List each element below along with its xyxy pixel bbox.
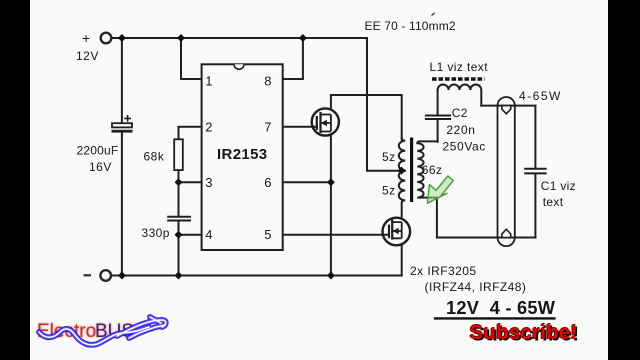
terminal + (12V positive) — [101, 33, 112, 44]
svg-text:(IRFZ44, IRFZ48): (IRFZ44, IRFZ48) — [425, 280, 527, 294]
svg-text:2200uF: 2200uF — [77, 144, 119, 158]
wire lamp bottom return — [437, 237, 536, 239]
wire C2 bottom lead — [437, 120, 439, 142]
svg-text:12V 4 - 65W: 12V 4 - 65W — [446, 298, 556, 318]
label - — [84, 274, 91, 276]
wire ground bottom rail — [111, 275, 401, 277]
wire top 12V rail to transformer center tap — [111, 38, 399, 171]
svg-text:12V: 12V — [76, 49, 99, 63]
wire L1 to lamp top — [481, 105, 515, 107]
transistor Q1 MOSFET — [312, 108, 339, 135]
svg-text:16V: 16V — [89, 160, 112, 174]
transformer T1 core — [410, 138, 413, 203]
node 330p-pin4 junction — [175, 231, 183, 239]
transformer T1 secondary winding 66z — [417, 141, 437, 237]
node ground-Q1source junction — [327, 272, 335, 280]
svg-text:7: 7 — [264, 119, 271, 134]
node 68k-330p-pin3 junction — [175, 178, 183, 186]
svg-text:EE 70 - 110mm2: EE 70 - 110mm2 — [365, 19, 456, 33]
svg-text:text: text — [543, 195, 564, 209]
svg-text:Subscribe!: Subscribe! — [470, 321, 578, 344]
svg-text:C1 viz: C1 viz — [541, 179, 576, 193]
transformer T1 primary winding 5z upper — [399, 138, 405, 171]
capacitor C 330p — [167, 217, 191, 221]
cursor green arrow — [427, 176, 453, 203]
wire C1 top lead — [534, 106, 536, 168]
node junction dots — [118, 34, 406, 280]
lamp top electrode — [502, 106, 511, 114]
logo ElectroBUS — [37, 317, 166, 345]
node pin6-VS junction — [327, 178, 335, 186]
svg-text:C2: C2 — [452, 106, 468, 120]
capacitor C 2200uF electrolytic — [112, 115, 133, 133]
svg-text:2x IRF3205: 2x IRF3205 — [410, 264, 477, 278]
wire Q1 drain to primary top — [331, 95, 402, 140]
svg-text:+: + — [82, 30, 90, 46]
svg-text:250Vac: 250Vac — [443, 140, 486, 154]
node rail-pin1 junction — [177, 34, 185, 42]
wire Q2 source to ground rail — [401, 246, 403, 276]
node ground-cap junction — [118, 272, 126, 280]
capacitor C1 plates — [524, 169, 547, 174]
svg-text:L1 viz text: L1 viz text — [430, 60, 489, 74]
wire pin 8 to rail — [283, 38, 303, 79]
svg-text:68k: 68k — [144, 149, 165, 163]
inductor L1 core dashed — [432, 77, 485, 80]
svg-text:66z: 66z — [422, 163, 443, 177]
svg-text:220n: 220n — [446, 123, 475, 137]
wire Q1 source to ground rail — [330, 136, 332, 276]
node transformer center tap — [398, 167, 406, 175]
svg-text:5z: 5z — [382, 150, 396, 164]
wire lamp top to C1 rail — [515, 105, 536, 107]
wire 330p bottom to ground rail — [178, 221, 180, 275]
wire 68k bottom to 330p top — [178, 170, 180, 216]
resistor R 68k — [174, 139, 183, 170]
lamp bottom electrode — [502, 229, 511, 237]
svg-text:2: 2 — [205, 119, 212, 134]
wire pin 6 to VS node — [283, 181, 331, 183]
wire pin 5 to Q2 gate — [283, 234, 389, 236]
svg-text:4-65W: 4-65W — [519, 89, 562, 103]
node ground-330p junction — [175, 272, 183, 280]
wire C2 top lead — [437, 90, 439, 114]
wire pin 3 stub — [179, 181, 202, 183]
svg-text:5z: 5z — [382, 183, 396, 197]
IC U1 IR2153 gate driver body — [202, 64, 283, 250]
wire C1 bottom lead — [534, 174, 536, 237]
svg-text:4: 4 — [205, 227, 212, 242]
capacitor C2 plates — [425, 116, 451, 120]
terminal - (12V negative) — [100, 270, 111, 281]
svg-text:IR2153: IR2153 — [217, 146, 267, 163]
transformer T1 primary winding 5z lower — [399, 171, 405, 218]
transistor Q2 MOSFET — [383, 218, 411, 246]
svg-text:330p: 330p — [142, 226, 170, 240]
svg-text:1: 1 — [205, 74, 212, 89]
svg-text:6: 6 — [264, 175, 271, 190]
wire 2200uF bottom branch — [121, 133, 123, 276]
node rail-pin8 junction — [299, 34, 307, 42]
lamp load tube outline — [498, 97, 515, 246]
svg-text:3: 3 — [205, 175, 212, 190]
wire pin 4 stub — [179, 234, 202, 236]
wire pin 1 branch from rail — [181, 38, 202, 79]
inductor L1 coil — [438, 85, 482, 106]
wire pin 2 to 68k top — [179, 127, 202, 140]
svg-text:5: 5 — [264, 227, 271, 242]
wire 2200uF top branch — [121, 38, 123, 123]
node rail-cap junction — [118, 34, 126, 42]
wire pin 7 to Q1 gate — [283, 126, 317, 128]
svg-text:8: 8 — [264, 74, 271, 89]
